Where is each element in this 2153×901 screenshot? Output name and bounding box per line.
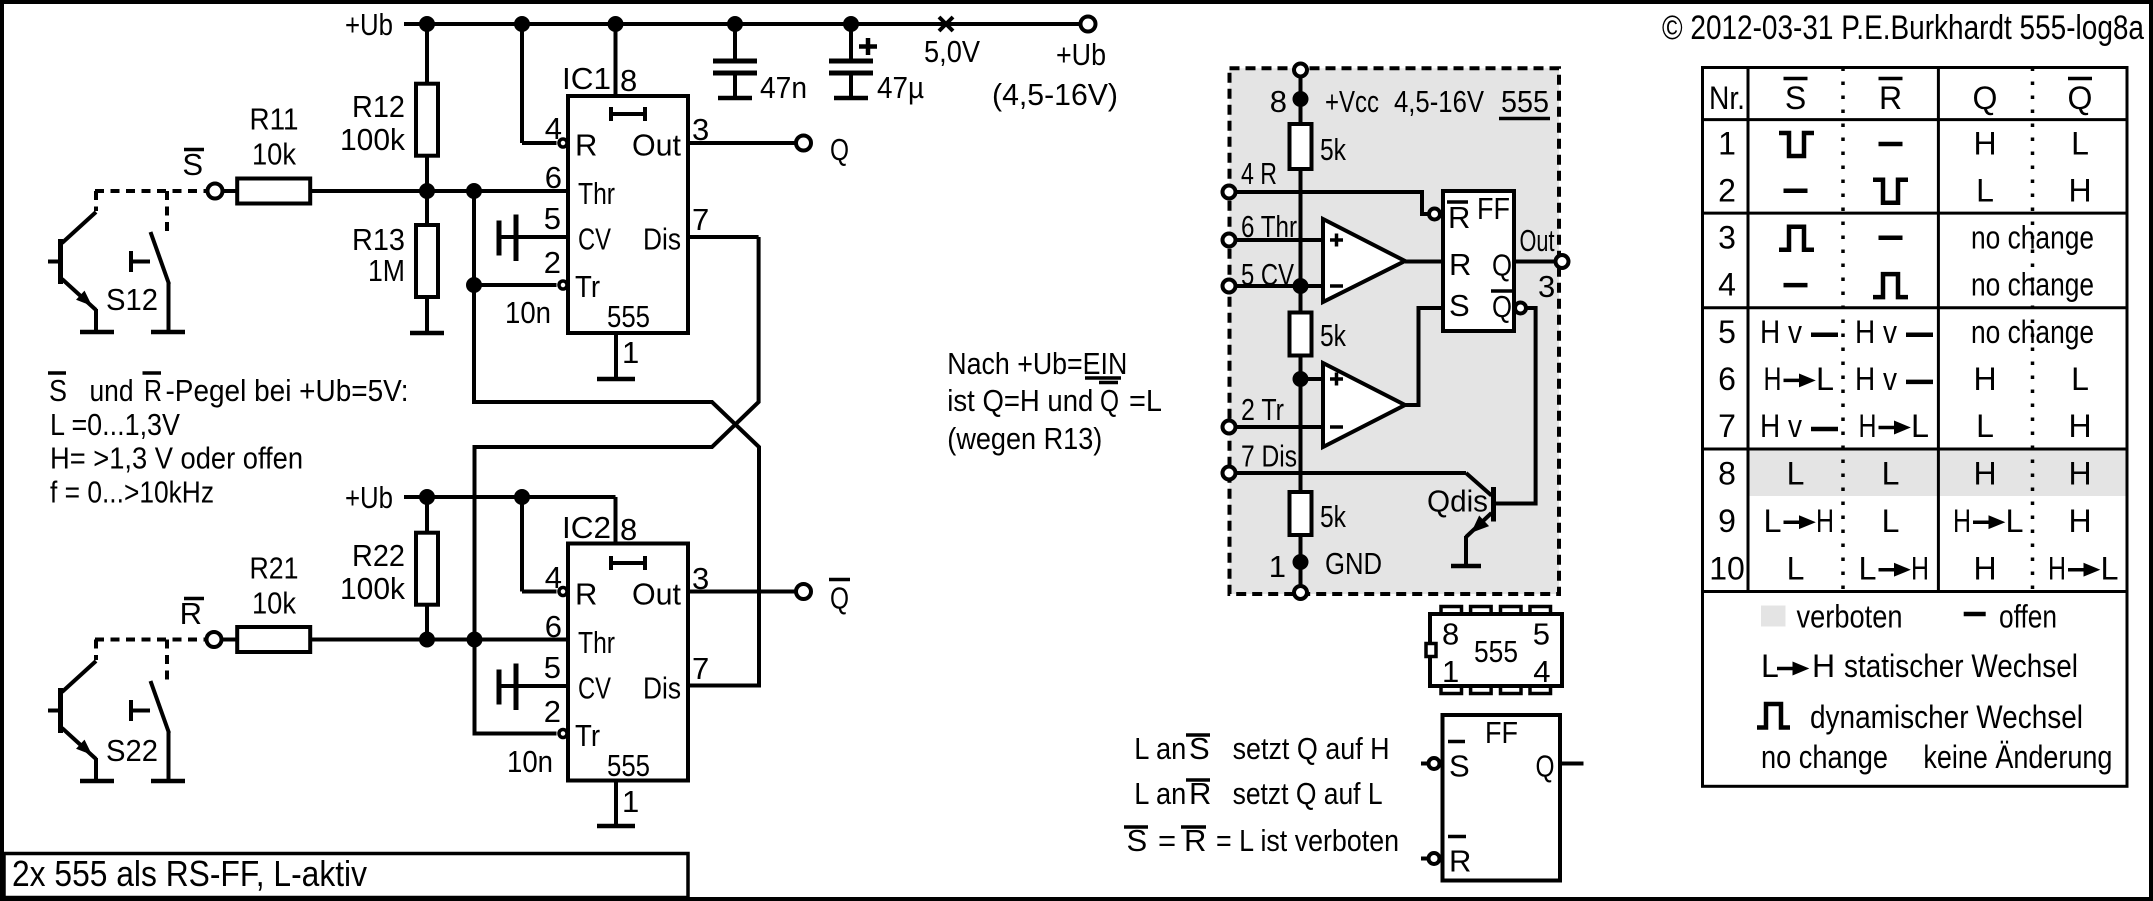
svg-text:47n: 47n [760,70,807,105]
resistor R21 [237,627,310,652]
svg-text:555: 555 [607,299,650,334]
svg-text:L: L [2071,361,2089,397]
svg-text:2: 2 [1718,172,1736,208]
junction dot rail pin8 [608,17,623,32]
svg-text:8: 8 [1718,455,1736,491]
svg-text:Qdis: Qdis [1427,484,1488,519]
svg-text:H: H [1859,408,1877,444]
svg-text:offen: offen [1999,599,2057,635]
op-amp comparator 1 [1323,219,1405,302]
wire Vcc to divider [1299,77,1303,126]
svg-text:H= >1,3 V oder offen: H= >1,3 V oder offen [50,441,303,476]
svg-text:7: 7 [692,202,709,237]
table row8 verboten gray band [1750,451,2126,497]
wire +Ub lower rail [404,495,616,499]
svg-text:1M: 1M [368,253,405,288]
wire Tr to comparator2 minus [1236,425,1324,429]
svg-text:setzt Q auf L: setzt Q auf L [1233,776,1383,811]
svg-text:H v: H v [1855,314,1897,350]
svg-text:555: 555 [607,748,650,783]
pin 4 R IC1 [520,24,524,143]
svg-text:H: H [2068,172,2091,208]
svg-text:verboten: verboten [1797,599,1903,635]
svg-text:1: 1 [1718,126,1736,162]
svg-text:L: L [2071,126,2089,162]
svg-text:R22: R22 [352,538,405,573]
resistor divider 5k lower [1290,492,1312,535]
svg-text:Thr: Thr [578,625,615,660]
svg-text:5k: 5k [1320,499,1346,534]
svg-text:5k: 5k [1320,318,1346,353]
svg-text:Nr.: Nr. [1709,80,1745,116]
svg-text:R: R [575,577,597,612]
svg-text:L: L [1882,503,1900,539]
wire +Ub top rail [404,22,1088,26]
svg-text:CV: CV [578,671,611,706]
ground C47n [718,96,752,101]
svg-text:+Ub: +Ub [345,480,393,515]
junction dot R12 R13 Thr [420,184,435,199]
svg-text:7: 7 [1718,408,1736,444]
svg-text:6: 6 [545,160,562,195]
svg-text:5,0V: 5,0V [924,34,980,69]
svg-text:R: R [1879,80,1902,116]
svg-text:4: 4 [1718,267,1736,303]
measurement point X 5,0V [939,17,953,31]
svg-text:R12: R12 [352,89,405,124]
svg-text:=L: =L [1129,383,1162,418]
resistor R13 [425,191,429,225]
svg-text:7 Dis: 7 Dis [1241,439,1297,474]
svg-text:L: L [1787,455,1805,491]
capacitor CV IC2 [497,670,502,705]
svg-text:(4,5-16V): (4,5-16V) [992,77,1118,112]
wire R input to FF Rbar [1236,192,1429,214]
svg-text:8: 8 [620,63,637,98]
svg-text:IC2: IC2 [562,510,611,545]
terminal Sbar [208,184,223,199]
svg-text:4,5-16V: 4,5-16V [1394,84,1484,119]
junction dot GND pin1 [1293,555,1308,570]
capacitor C 47n [733,24,737,59]
pin 1 IC1 ground [614,333,618,377]
svg-text:H: H [2068,503,2091,539]
junction dot lower rail R22 [420,490,435,505]
svg-text:no change: no change [1761,739,1888,775]
svg-text:4: 4 [545,560,562,595]
svg-text:R: R [144,373,162,408]
svg-text:R: R [1448,200,1470,235]
svg-text:Q: Q [1100,383,1119,418]
svg-text:ist Q=H und: ist Q=H und [947,383,1093,418]
svg-text:keine Änderung: keine Änderung [1923,739,2112,775]
svg-text:R: R [180,596,202,631]
FF input Rbar [1429,209,1440,220]
DIP-8 pin1 notch [1426,644,1436,657]
FF input S from comparator2 [1405,308,1443,405]
terminal Out pin3 [1556,255,1569,268]
terminal GND pin1 bottom [1294,586,1307,599]
svg-text:555: 555 [1474,634,1518,669]
pin 4 R IC2 [520,497,524,592]
svg-text:L: L [2101,550,2119,586]
svg-text:L: L [1859,550,1877,586]
capacitor C 47u polarized [849,24,853,59]
svg-text:(wegen R13): (wegen R13) [947,421,1102,456]
terminal Q output [796,136,811,151]
svg-text:S: S [182,147,203,182]
wire Rbar to R21 [222,638,238,642]
wire divider lower to GND [1299,535,1303,592]
wire dashed drop to switch S22 [165,640,169,683]
svg-text:Q: Q [1492,248,1512,283]
svg-text:IC1: IC1 [562,61,611,96]
resistor divider 5k upper [1290,124,1312,169]
svg-text:2x 555 als RS-FF, L-aktiv: 2x 555 als RS-FF, L-aktiv [12,853,367,894]
wire dashed drop to switch S12 [165,191,169,233]
svg-text:5: 5 [1718,314,1736,350]
table group separator row7-8 [1703,448,2128,451]
svg-text:setzt Q auf H: setzt Q auf H [1233,731,1390,766]
svg-text:L: L [1761,648,1779,684]
svg-text:8: 8 [1270,84,1287,119]
svg-text:=: = [1158,823,1176,858]
table dotted divider Q Qbar [2031,68,2035,592]
svg-text:H: H [1973,126,1996,162]
wire Qbar to Qdis base [1496,308,1536,504]
wire R21 to Thr node IC2 [310,638,568,642]
svg-text:S22: S22 [106,733,158,768]
wire R11 to Thr node [310,189,568,193]
svg-text:L =0...1,3V: L =0...1,3V [50,407,180,442]
svg-text:Nach +Ub=EIN: Nach +Ub=EIN [947,346,1127,381]
wire Thr to comparator1 plus [1236,238,1324,242]
wire Dis to Qdis collector [1236,471,1467,475]
svg-text:Q: Q [1492,289,1512,324]
svg-text:6: 6 [1718,361,1736,397]
resistor divider 5k middle [1290,313,1312,356]
svg-text:H: H [2068,408,2091,444]
junction dot Thr Tr branch [467,184,482,199]
table header separator [1703,118,2128,121]
wire dashed mech link Sbar [95,189,207,193]
svg-text:no change: no change [1971,219,2094,255]
svg-text:R: R [575,128,597,163]
svg-text:+Vcc: +Vcc [1325,84,1379,119]
capacitor CV IC1 [497,221,502,256]
svg-text:und: und [90,373,134,408]
svg-text:H: H [2048,550,2066,586]
svg-text:9: 9 [1718,503,1736,539]
table column line Nr [1747,68,1750,592]
svg-text:H: H [1973,550,1996,586]
svg-text:L: L [1764,503,1782,539]
legend box [1703,592,2128,787]
wire IC1 ThrTr node to IC2 Dis [474,191,759,686]
svg-text:dynamischer Wechsel: dynamischer Wechsel [1810,699,2083,735]
svg-text:S: S [1449,288,1470,323]
transistor sensor lower NPN [58,688,63,733]
svg-text:L: L [1787,550,1805,586]
flip-flop FF symbol box [1443,715,1561,881]
wire IC1 Dis to IC2 ThrTr node [688,235,759,239]
svg-text:Dis: Dis [643,222,681,257]
svg-text:no change: no change [1971,314,2094,350]
svg-text:L: L [1976,172,1994,208]
svg-text:10n: 10n [507,744,553,779]
junction dot rail C47u [844,17,859,32]
svg-text:Thr: Thr [578,176,615,211]
svg-text:10k: 10k [252,137,296,172]
svg-text:5: 5 [544,201,561,236]
junction dot divider CV [1293,279,1308,294]
terminal Qbar output [796,584,811,599]
svg-text:S: S [1449,749,1470,784]
timer bar symbol IC1 [611,112,645,116]
junction dot Tr branch IC1 [467,278,482,293]
svg-text:H v: H v [1760,314,1802,350]
svg-text:100k: 100k [340,122,405,157]
resistor R22 [425,497,429,533]
DIP-8 package 555 top pins [1441,607,1462,615]
svg-text:R21: R21 [250,551,299,586]
svg-text:L: L [2006,503,2024,539]
svg-text:GND: GND [1325,546,1382,581]
svg-text:L: L [1911,408,1929,444]
svg-text:Out: Out [632,577,681,612]
svg-text:2: 2 [544,245,561,280]
svg-text:4: 4 [545,111,562,146]
ground transistor upper [80,330,114,335]
svg-text:H: H [1764,361,1782,397]
svg-text:7: 7 [692,651,709,686]
legend verboten swatch [1761,606,1786,627]
svg-text:5k: 5k [1320,132,1346,167]
svg-text:+Ub: +Ub [345,7,393,42]
table truth table frame [1703,68,2128,592]
svg-text:Dis: Dis [643,671,681,706]
svg-text:8: 8 [1442,617,1459,652]
svg-text:6: 6 [545,609,562,644]
svg-text:f = 0...>10kHz: f = 0...>10kHz [50,475,214,510]
terminal +Ub supply [1081,17,1096,32]
table group separator row2-3 [1703,212,2128,215]
svg-text:10n: 10n [505,295,551,330]
svg-text:2 Tr: 2 Tr [1241,392,1284,427]
junction dot R22 Thr IC2 [420,632,435,647]
op-amp timer IC2 555 box [568,544,688,781]
svg-text:CV: CV [578,222,611,257]
svg-text:Q: Q [830,581,849,616]
svg-text:L: L [1882,455,1900,491]
svg-text:FF: FF [1477,191,1510,226]
svg-text:555: 555 [1501,84,1549,119]
svg-text:4: 4 [1533,654,1550,689]
op-amp comparator 2 [1323,363,1405,447]
wire dashed mech link Rbar [95,638,206,642]
svg-text:-Pegel bei +Ub=5V:: -Pegel bei +Ub=5V: [166,373,409,408]
wire divider middle to comp2 [1299,355,1303,492]
svg-text:L an: L an [1134,776,1186,811]
table dotted divider S R [1841,68,1845,592]
svg-text:1: 1 [1269,549,1286,584]
wire dashed drop to transistor lower [94,640,98,661]
terminal Rbar [207,632,222,647]
svg-text:Q: Q [2068,80,2093,116]
svg-text:+Ub: +Ub [1056,37,1106,72]
svg-text:5: 5 [544,650,561,685]
junction dot rail C47n [728,17,743,32]
svg-text:10k: 10k [252,586,296,621]
svg-text:47µ: 47µ [877,70,924,105]
svg-text:R13: R13 [352,222,405,257]
flip-flop FF box internal [1443,191,1514,331]
resistor R11 [237,179,310,204]
svg-text:Tr: Tr [575,269,600,304]
svg-text:R11: R11 [250,102,299,137]
svg-text:2: 2 [544,694,561,729]
junction dot rail pin4 [515,17,530,32]
ground R13 [410,331,444,336]
svg-text:H: H [1816,503,1834,539]
timer bar symbol IC2 [611,561,645,565]
svg-text:10: 10 [1709,550,1745,586]
ground S22 [151,779,185,784]
svg-text:H: H [1973,455,1996,491]
transistor sensor upper NPN [58,239,63,284]
junction dot pin8 [1293,92,1308,107]
555 internal diagram gray box [1230,68,1560,594]
legend offen dash [1964,612,1986,617]
svg-text:S: S [1785,80,1806,116]
DIP-8 package 555 bottom pins [1441,686,1462,694]
wire dashed drop to transistor collector [94,191,98,211]
svg-text:no change: no change [1971,267,2094,303]
svg-text:R: R [1449,247,1471,282]
legend dynamischer Wechsel pulse [1757,704,1790,728]
svg-text:L: L [1976,408,1994,444]
svg-text:Q: Q [830,132,849,167]
svg-text:H v: H v [1760,408,1802,444]
svg-text:H: H [1953,503,1971,539]
svg-text:1: 1 [622,784,639,819]
junction dot rail R12 [420,17,435,32]
FF symbol Sbar input [1421,762,1429,766]
svg-text:1: 1 [1442,654,1459,689]
switch S12 [129,251,133,272]
svg-text:H: H [1973,361,1996,397]
FF symbol Rbar input [1421,857,1429,861]
svg-text:© 2012-03-31 P.E.Burkhardt 555: © 2012-03-31 P.E.Burkhardt 555-log8a [1662,9,2144,47]
DIP-8 package 555 body [1430,614,1562,686]
op-amp timer IC1 555 box [568,96,688,333]
ground C47u [834,96,868,101]
wire divider upper to CV node [1299,169,1303,313]
ground S12 [151,330,185,335]
pin 1 IC2 ground [614,781,618,825]
svg-text:H: H [1911,550,1929,586]
svg-text:Out: Out [1520,223,1555,258]
svg-text:R: R [1449,844,1471,879]
ground Qdis emitter [1451,564,1481,569]
switch S22 [129,700,133,721]
svg-text:S: S [49,373,67,408]
wire CV to comparator1 minus [1236,284,1324,288]
junction dot Thr Tr branch IC2 [467,632,482,647]
table column line SR-QQ [1937,68,1940,592]
svg-text:Q: Q [1973,80,1998,116]
resistor R12 [425,24,429,84]
svg-text:L an: L an [1134,731,1186,766]
svg-text:FF: FF [1485,715,1518,750]
svg-text:8: 8 [620,512,637,547]
svg-text:1: 1 [622,335,639,370]
svg-text:S12: S12 [106,282,158,317]
svg-text:L: L [1816,361,1834,397]
FF input R from comparator1 [1405,260,1443,264]
svg-text:statischer Wechsel: statischer Wechsel [1844,648,2078,684]
svg-text:3: 3 [1538,269,1555,304]
svg-text:4 R: 4 R [1241,156,1277,191]
wire Sbar to R11 [223,189,238,193]
svg-text:Tr: Tr [575,718,600,753]
svg-text:5: 5 [1533,617,1550,652]
svg-text:H v: H v [1855,361,1897,397]
svg-text:Out: Out [632,128,681,163]
table group separator row4-5 [1703,306,2128,309]
title box [4,854,688,898]
FF symbol Q output [1560,762,1584,766]
svg-text:H: H [2068,455,2091,491]
junction dot divider comp2 plus [1293,372,1308,387]
svg-text:3: 3 [1718,219,1736,255]
svg-text:100k: 100k [340,571,405,606]
svg-text:H: H [1812,648,1835,684]
ground transistor lower [80,779,114,784]
svg-text:= L ist verboten: = L ist verboten [1216,823,1399,858]
junction dot lower rail pin4 [515,490,530,505]
svg-text:Q: Q [1536,749,1555,784]
terminal +Vcc pin8 top [1294,64,1307,77]
